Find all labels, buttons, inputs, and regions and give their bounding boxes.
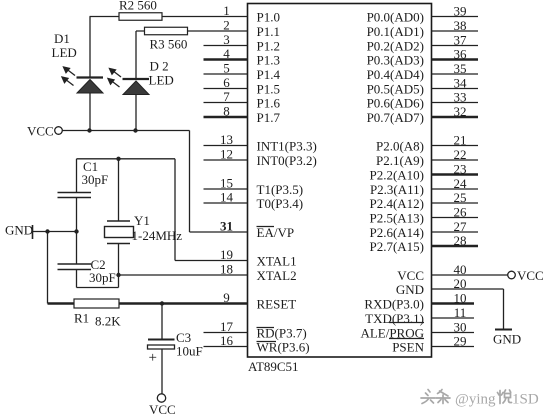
svg-text:33: 33 bbox=[454, 90, 467, 105]
junction D2-VCC rail bbox=[133, 128, 137, 132]
ground terminal bar left bbox=[32, 225, 34, 239]
wire C2 top lead bbox=[76, 232, 78, 265]
LED D1 emission arrows bbox=[62, 67, 75, 86]
svg-text:P1.5: P1.5 bbox=[257, 82, 280, 97]
svg-text:24: 24 bbox=[454, 176, 468, 191]
wire pin 5 (P1.4) bbox=[204, 73, 248, 75]
svg-text:P0.4(AD4): P0.4(AD4) bbox=[367, 67, 424, 82]
wire pin 35 (P0.4(AD4)) bbox=[432, 73, 479, 75]
wire pin 3 (P1.2) bbox=[204, 45, 248, 47]
wire D2 anode to VCC rail bbox=[135, 95, 137, 131]
crystal Y1 top plate bbox=[107, 220, 130, 222]
svg-text:16: 16 bbox=[220, 333, 234, 348]
svg-text:VCC: VCC bbox=[27, 124, 54, 139]
svg-text:19: 19 bbox=[220, 247, 233, 262]
svg-text:LED: LED bbox=[149, 73, 174, 88]
wire GND node down to reset row bbox=[47, 232, 49, 304]
capacitor C3 top plate bbox=[148, 339, 175, 341]
junction crystal top node bbox=[116, 157, 120, 161]
svg-text:P1.7: P1.7 bbox=[257, 110, 281, 125]
svg-text:22: 22 bbox=[454, 147, 467, 162]
svg-text:P0.7(AD7): P0.7(AD7) bbox=[367, 110, 424, 125]
svg-text:25: 25 bbox=[454, 190, 467, 205]
overline EA (pin 31 label) bbox=[257, 226, 275, 228]
svg-text:P2.4(A12): P2.4(A12) bbox=[369, 196, 424, 211]
svg-text:P2.2(A10): P2.2(A10) bbox=[369, 168, 424, 183]
svg-text:30pF: 30pF bbox=[82, 172, 109, 187]
resistor R2 body bbox=[119, 13, 162, 21]
wire pin 34 (P0.5(AD5)) bbox=[432, 88, 479, 90]
wire pin 13 (INT1(P3.3)) bbox=[204, 145, 248, 147]
svg-text:INT0(P3.2): INT0(P3.2) bbox=[257, 153, 317, 168]
resistor R3 body bbox=[145, 27, 188, 35]
svg-text:R2 560: R2 560 bbox=[119, 0, 157, 13]
svg-text:30: 30 bbox=[454, 320, 467, 335]
wire pin 22 (P2.1(A9)) bbox=[432, 159, 479, 161]
svg-text:P2.7(A15): P2.7(A15) bbox=[369, 239, 424, 254]
svg-text:13: 13 bbox=[220, 132, 233, 147]
svg-text:38: 38 bbox=[454, 18, 467, 33]
wire pin 20 (GND) bbox=[432, 288, 504, 290]
wire pin 36 (P0.3(AD3)) bbox=[432, 58, 479, 60]
svg-text:R1: R1 bbox=[74, 311, 89, 326]
wire pin 14 (T0(P3.4)) bbox=[204, 202, 248, 204]
LED D2 emission arrows bbox=[108, 69, 121, 88]
svg-text:10uF: 10uF bbox=[176, 344, 203, 359]
svg-text:26: 26 bbox=[454, 205, 468, 220]
svg-text:GND: GND bbox=[493, 332, 521, 347]
svg-text:28: 28 bbox=[454, 233, 467, 248]
svg-text:3: 3 bbox=[223, 32, 230, 47]
VCC terminal left bbox=[55, 127, 63, 135]
resistor R1 body bbox=[74, 299, 119, 308]
svg-text:P0.0(AD0): P0.0(AD0) bbox=[367, 10, 424, 25]
watermark toutiao @ying1SD bbox=[421, 390, 512, 404]
svg-text:XTAL2: XTAL2 bbox=[257, 268, 297, 283]
svg-text:1: 1 bbox=[223, 3, 230, 18]
wire pin 2 (P1.1) bbox=[136, 30, 248, 32]
svg-text:7: 7 bbox=[223, 89, 230, 104]
svg-text:34: 34 bbox=[454, 76, 468, 91]
wire pin 25 (P2.4(A12)) bbox=[432, 202, 479, 204]
VCC terminal bottom bbox=[157, 394, 165, 402]
svg-text:4: 4 bbox=[223, 46, 230, 61]
wire pin 37 (P0.2(AD2)) bbox=[432, 45, 479, 47]
svg-text:1-24MHz: 1-24MHz bbox=[132, 228, 183, 243]
svg-text:AT89C51: AT89C51 bbox=[248, 359, 299, 374]
svg-text:35: 35 bbox=[454, 61, 467, 76]
svg-text:R3 560: R3 560 bbox=[150, 37, 188, 52]
svg-text:RXD(P3.0): RXD(P3.0) bbox=[364, 297, 424, 312]
IC U1 AT89C51 body bbox=[248, 4, 432, 358]
wire pin 9 (RESET) bbox=[48, 302, 248, 304]
wire RESET node to C3 bbox=[161, 304, 163, 340]
wire pin 26 (P2.5(A13)) bbox=[432, 217, 479, 219]
svg-text:Y1: Y1 bbox=[134, 213, 150, 228]
svg-text:RESET: RESET bbox=[257, 297, 297, 312]
svg-text:5: 5 bbox=[223, 61, 230, 76]
wire pin 7 (P1.6) bbox=[204, 102, 248, 104]
wire pin 21 (P2.0(A8)) bbox=[432, 145, 479, 147]
svg-text:VCC: VCC bbox=[517, 268, 544, 283]
svg-text:10: 10 bbox=[454, 291, 467, 306]
svg-text:17: 17 bbox=[220, 319, 234, 334]
svg-text:TXD(P3.1): TXD(P3.1) bbox=[365, 311, 424, 326]
svg-text:40: 40 bbox=[454, 262, 467, 277]
svg-text:32: 32 bbox=[454, 104, 467, 119]
svg-text:P0.6(AD6): P0.6(AD6) bbox=[367, 96, 424, 111]
junction XTAL2 node bbox=[116, 273, 120, 277]
capacitor C3 bottom plate bbox=[148, 345, 175, 349]
wire pin 12 (INT0(P3.2)) bbox=[204, 159, 248, 161]
wire XTAL1 node vertical bbox=[174, 159, 176, 261]
svg-text:P1.2: P1.2 bbox=[257, 39, 280, 54]
svg-text:P2.6(A14): P2.6(A14) bbox=[369, 225, 424, 240]
wire GND horizontal bbox=[33, 231, 77, 233]
svg-text:XTAL1: XTAL1 bbox=[257, 254, 297, 269]
wire pin 40 (VCC) bbox=[432, 274, 508, 276]
svg-text:GND: GND bbox=[396, 282, 424, 297]
svg-text:P2.3(A11): P2.3(A11) bbox=[370, 182, 424, 197]
overline PROG (pin 30 label) bbox=[389, 322, 424, 324]
LED D1 cathode bar bbox=[77, 76, 104, 78]
svg-text:LED: LED bbox=[52, 45, 77, 60]
svg-text:1SD: 1SD bbox=[512, 392, 539, 408]
wire R2 to D1 cathode bbox=[89, 17, 91, 78]
svg-text:8.2K: 8.2K bbox=[95, 314, 121, 329]
junction RESET-C3 node bbox=[160, 301, 164, 305]
crystal Y1 body bbox=[105, 227, 134, 238]
svg-text:8: 8 bbox=[223, 104, 230, 119]
wire pin 33 (P0.6(AD6)) bbox=[432, 102, 479, 104]
wire VCC rail horizontal bbox=[62, 130, 189, 132]
svg-text:9: 9 bbox=[223, 290, 230, 305]
LED D2 triangle bbox=[123, 81, 149, 95]
wire pin 8 (P1.7) bbox=[204, 116, 248, 118]
wire pin 16 (WR(P3.6)) bbox=[204, 346, 248, 348]
wire pin 4 (P1.3) bbox=[204, 58, 248, 60]
wire pin 32 (P0.7(AD7)) bbox=[432, 116, 479, 118]
svg-text:2: 2 bbox=[223, 18, 230, 33]
overline WR (pin 16 label) bbox=[257, 341, 277, 343]
svg-text:INT1(P3.3): INT1(P3.3) bbox=[257, 139, 317, 154]
svg-text:15: 15 bbox=[220, 176, 233, 191]
svg-text:14: 14 bbox=[220, 190, 234, 205]
wire pin 30 (ALE/PROG) bbox=[432, 332, 475, 334]
svg-text:20: 20 bbox=[454, 276, 467, 291]
junction GND-R1 node bbox=[45, 229, 49, 233]
svg-text:P2.5(A13): P2.5(A13) bbox=[369, 211, 424, 226]
svg-text:P1.6: P1.6 bbox=[257, 96, 281, 111]
crystal Y1 bottom lead bbox=[118, 244, 120, 276]
wire C1 top lead bbox=[76, 159, 78, 193]
wire pin 17 (RD(P3.7)) bbox=[204, 332, 248, 334]
wire GND pin 20 vertical bbox=[503, 289, 505, 329]
svg-text:37: 37 bbox=[454, 33, 468, 48]
svg-text:6: 6 bbox=[223, 75, 230, 90]
svg-text:P1.1: P1.1 bbox=[257, 24, 280, 39]
wire C1 bottom to GND node bbox=[76, 198, 78, 232]
svg-text:18: 18 bbox=[220, 262, 233, 277]
svg-text:P1.4: P1.4 bbox=[257, 67, 281, 82]
svg-text:29: 29 bbox=[454, 334, 467, 349]
svg-text:11: 11 bbox=[454, 305, 467, 320]
svg-text:23: 23 bbox=[454, 162, 467, 177]
svg-text:27: 27 bbox=[454, 219, 468, 234]
svg-text:36: 36 bbox=[454, 47, 468, 62]
capacitor C1 plates bbox=[58, 192, 92, 194]
wire pin 1 (P1.0) bbox=[90, 16, 248, 18]
junction GND-C1C2 node bbox=[74, 229, 78, 233]
svg-text:P0.1(AD1): P0.1(AD1) bbox=[367, 24, 424, 39]
svg-text:P2.0(A8): P2.0(A8) bbox=[376, 139, 424, 154]
wire pin 39 (P0.0(AD0)) bbox=[432, 16, 479, 18]
svg-text:VCC: VCC bbox=[397, 268, 424, 283]
wire pin 10 (RXD(P3.0)) bbox=[432, 302, 475, 304]
svg-text:+: + bbox=[149, 350, 157, 366]
svg-text:12: 12 bbox=[220, 147, 233, 162]
svg-text:30pF: 30pF bbox=[89, 270, 116, 285]
crystal Y1 top lead bbox=[118, 159, 120, 221]
svg-text:D1: D1 bbox=[54, 31, 70, 46]
wire XTAL1 node horizontal bbox=[77, 158, 176, 160]
svg-text:@ying: @ying bbox=[455, 392, 496, 408]
overline PSEN (pin 29 label) bbox=[389, 338, 424, 340]
svg-text:T1(P3.5): T1(P3.5) bbox=[257, 182, 304, 197]
wire C2 bottom elbow bbox=[76, 270, 78, 288]
svg-text:D 2: D 2 bbox=[150, 59, 169, 74]
wire pin 11 (TXD(P3.1)) bbox=[432, 317, 475, 319]
svg-text:PSEN: PSEN bbox=[392, 340, 424, 355]
wire pin 18 (XTAL2) bbox=[119, 274, 248, 276]
svg-text:31: 31 bbox=[220, 219, 233, 234]
svg-text:P0.2(AD2): P0.2(AD2) bbox=[367, 39, 424, 54]
LED D2 cathode bar bbox=[123, 78, 150, 80]
wire C3 to VCC terminal bbox=[161, 349, 163, 394]
wire pin 6 (P1.5) bbox=[204, 88, 248, 90]
capacitor C2 plates bbox=[58, 263, 92, 265]
wire VCC rail to EA/VP bbox=[189, 131, 191, 233]
svg-text:GND: GND bbox=[5, 223, 33, 238]
wire pin 23 (P2.2(A10)) bbox=[432, 173, 479, 175]
ground symbol right bbox=[495, 329, 512, 331]
svg-text:VCC: VCC bbox=[149, 402, 176, 417]
wire D1 anode to VCC rail bbox=[89, 93, 91, 131]
junction D1-VCC rail bbox=[87, 128, 91, 132]
overline RD (pin 17 label) bbox=[257, 327, 275, 329]
svg-text:P1.0: P1.0 bbox=[257, 10, 280, 25]
wire pin 27 (P2.6(A14)) bbox=[432, 231, 479, 233]
wire pin 28 (P2.7(A15)) bbox=[432, 245, 479, 247]
wire R3 to D2 cathode bbox=[135, 31, 137, 79]
svg-text:P2.1(A9): P2.1(A9) bbox=[376, 153, 424, 168]
wire pin 15 (T1(P3.5)) bbox=[204, 188, 248, 190]
svg-text:21: 21 bbox=[454, 133, 467, 148]
wire pin 31 (EA/VP) bbox=[190, 231, 248, 233]
svg-text:P0.5(AD5): P0.5(AD5) bbox=[367, 82, 424, 97]
wire pin 19 (XTAL1) bbox=[175, 260, 248, 262]
svg-text:EA/VP: EA/VP bbox=[257, 225, 295, 240]
svg-text:P1.3: P1.3 bbox=[257, 53, 280, 68]
VCC terminal right (pin 40) bbox=[508, 271, 516, 279]
wire pin 38 (P0.1(AD1)) bbox=[432, 30, 479, 32]
svg-text:T0(P3.4): T0(P3.4) bbox=[257, 196, 304, 211]
svg-text:P0.3(AD3): P0.3(AD3) bbox=[367, 53, 424, 68]
wire pin 29 (PSEN) bbox=[432, 346, 475, 348]
svg-text:39: 39 bbox=[454, 4, 467, 19]
LED D1 triangle bbox=[77, 80, 103, 94]
crystal Y1 bottom plate bbox=[107, 243, 130, 245]
wire pin 24 (P2.3(A11)) bbox=[432, 188, 479, 190]
